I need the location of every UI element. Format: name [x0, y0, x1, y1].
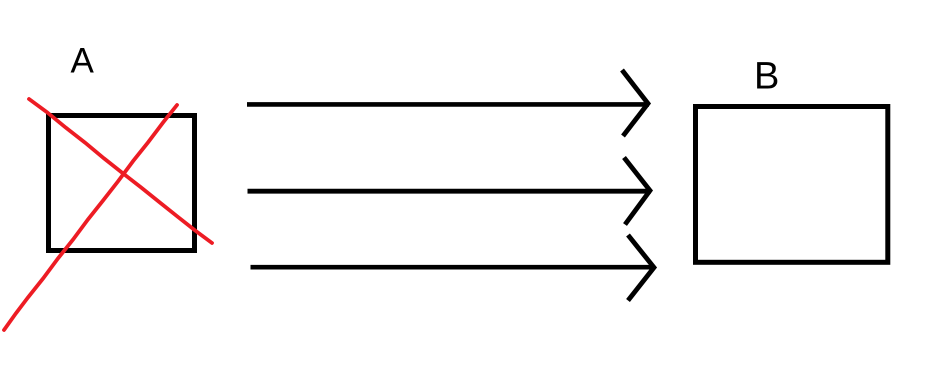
svg-text:B: B — [754, 56, 779, 98]
arrow 1 head — [622, 70, 648, 136]
arrow 2 shaft — [248, 189, 652, 194]
arrow 3 shaft — [251, 265, 654, 270]
red cross stroke 2 (top-right to bottom-left) — [4, 105, 177, 330]
svg-text:A: A — [71, 42, 95, 81]
arrow 2 head — [624, 158, 650, 225]
box A — [49, 116, 195, 251]
red cross stroke 1 (top-left to bottom-right) — [29, 99, 212, 243]
arrow 1 shaft — [247, 102, 649, 107]
box B — [696, 107, 888, 263]
arrow 3 head — [628, 235, 654, 301]
